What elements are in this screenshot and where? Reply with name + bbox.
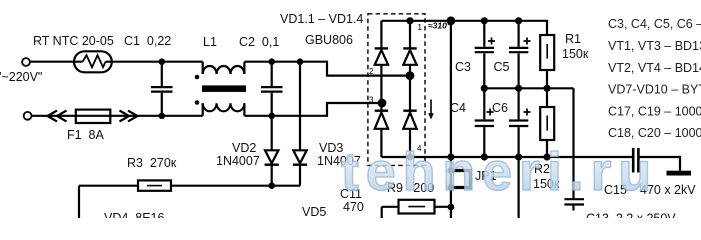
junction lower rail / C4 <box>481 153 488 160</box>
capacitor C6 leads <box>517 88 519 157</box>
capacitor C5 leads <box>517 21 519 89</box>
inductor L1 upper winding arcs <box>203 66 245 74</box>
junction +310V rail / C3 <box>481 17 488 24</box>
bridge right column wire <box>409 21 411 157</box>
junction C1 bottom <box>159 113 166 120</box>
junction lower rail / R2 <box>543 153 550 160</box>
wire R3 to VD2/VD3 node <box>171 185 300 187</box>
diode VD3 cathode bar <box>293 163 307 165</box>
resistor R9 body <box>399 200 435 214</box>
capacitor C4 leads <box>483 88 485 157</box>
svg-text:L1: L1 <box>203 35 217 49</box>
wire mid rail to R2 <box>546 88 548 107</box>
junction lower rail / midpoint wire <box>447 153 454 160</box>
svg-text:VD1.1 – VD1.4: VD1.1 – VD1.4 <box>280 12 363 26</box>
capacitor C6 plates <box>509 121 528 127</box>
wire C15 to chassis <box>640 157 680 171</box>
wire VD2 to R3 node <box>271 165 273 186</box>
diode VD2 triangle <box>265 150 278 163</box>
svg-text:R1: R1 <box>565 32 581 46</box>
resistor R2 body <box>540 107 554 140</box>
svg-text:1: 1 <box>418 23 423 32</box>
junction mid rail / C5 C6 <box>515 85 522 92</box>
capacitor C3 leads <box>483 21 485 89</box>
mid rail (C3/C4 junction net) <box>484 87 573 89</box>
diode VD3 triangle <box>293 150 306 163</box>
resistor R2 inner dash <box>546 116 548 131</box>
wire R2 to lower rail <box>546 140 548 157</box>
svg-text:RT NTC 20-05: RT NTC 20-05 <box>33 34 114 48</box>
chassis ground symbol <box>667 171 692 176</box>
junction C2 top <box>268 58 275 65</box>
half-bridge midpoint wire <box>450 21 452 218</box>
junction C1 top <box>159 58 166 65</box>
junction JP1 top <box>448 167 455 174</box>
svg-text:C2 0,1: C2 0,1 <box>239 35 279 49</box>
wire VD3 to R3 node <box>299 165 301 186</box>
svg-text:C6: C6 <box>492 101 508 115</box>
svg-text:VD5: VD5 <box>302 205 326 218</box>
thermistor RT zigzag element <box>83 55 106 67</box>
wire RT to L1 (upper line) <box>106 61 203 63</box>
svg-text:VD4 8Е16: VD4 8Е16 <box>104 211 165 218</box>
capacitor C13 lower lead <box>572 206 574 211</box>
resistor R1 body <box>540 35 554 70</box>
resistor R3 body <box>138 180 171 190</box>
svg-text:470: 470 <box>343 200 364 214</box>
inductor L1 lower winding lead <box>202 103 204 116</box>
capacitor C2 leads <box>271 62 273 116</box>
diode VD1.2 cathode bar <box>403 47 416 49</box>
capacitor C1 plates <box>151 87 173 92</box>
junction +310V rail / midpoint wire <box>447 16 456 25</box>
capacitor C2 plates <box>261 87 283 92</box>
svg-text:150к: 150к <box>562 47 589 61</box>
junction R9 right <box>448 204 455 211</box>
junction bridge pin 2 <box>406 71 415 80</box>
wire R9 to midpoint wire <box>435 206 451 208</box>
wire left of R3 <box>79 185 138 187</box>
wire R9 left lead down <box>382 207 399 218</box>
resistor R9 inner dash <box>408 206 425 208</box>
current direction arrow head <box>428 113 434 119</box>
fuse F1 8A <box>76 110 111 123</box>
svg-text:VT1, VT3 – BD139: VT1, VT3 – BD139 <box>608 39 701 53</box>
diode VD1.4 cathode bar <box>403 109 416 111</box>
svg-text:C1 0,22: C1 0,22 <box>124 34 171 48</box>
capacitor C4 plates <box>475 121 494 127</box>
diode VD2 cathode bar <box>265 163 279 165</box>
inductor L1 core bar <box>202 85 246 92</box>
svg-text:1N4007: 1N4007 <box>216 154 260 168</box>
polarity plus C6 <box>524 109 531 116</box>
svg-text:tehneri.ru: tehneri.ru <box>341 142 658 202</box>
svg-text:C3, C4, C5, C6 – 1,5: C3, C4, C5, C6 – 1,5 <box>608 17 701 31</box>
junction bridge pin 4 <box>406 153 413 160</box>
svg-text:C4: C4 <box>450 101 466 115</box>
svg-text:C5: C5 <box>494 60 510 74</box>
capacitor C1 leads <box>161 62 163 116</box>
svg-text:C3: C3 <box>455 60 471 74</box>
svg-text:3: 3 <box>369 96 374 105</box>
wire C6 node down to lower circuit <box>517 157 519 218</box>
junction lower rail / C6 <box>515 153 522 160</box>
svg-text:GBU806: GBU806 <box>305 33 353 47</box>
terminal X1 (upper input) <box>22 58 30 66</box>
diode VD1.1 cathode bar <box>375 47 388 49</box>
resistor R3 inner dash <box>147 185 162 187</box>
inductor L1 lower winding arcs <box>203 103 245 111</box>
terminal X2 (lower input) <box>24 112 32 120</box>
junction +310V rail / C5 <box>515 17 522 24</box>
svg-text:"~220V": "~220V" <box>0 70 42 84</box>
diode VD1.3 triangle <box>375 112 388 128</box>
inductor L1 upper winding lead <box>202 62 204 74</box>
junction C2 bottom <box>268 113 275 120</box>
bridge left column wire <box>380 21 382 157</box>
wire R1 to mid rail <box>546 70 548 88</box>
parts list text block <box>608 17 701 140</box>
svg-text:VD3: VD3 <box>319 141 343 155</box>
junction VD2 at R3 wire <box>268 182 275 189</box>
polarity plus C4 <box>487 109 494 116</box>
capacitor C5 plates <box>509 48 528 52</box>
svg-text:C13 2,2 x 250V: C13 2,2 x 250V <box>586 212 676 219</box>
svg-text:VD2: VD2 <box>232 141 256 155</box>
polarity dot L1 upper <box>195 75 200 80</box>
wire lower line to diode VD2 <box>271 116 273 151</box>
polarity plus C3 <box>488 38 495 45</box>
svg-text:≈310ʹ: ≈310ʹ <box>428 21 450 31</box>
junction JP1 bottom <box>448 184 455 191</box>
wire X2 through F1 to L1 (lower line) <box>32 115 203 117</box>
wire R3 down to VD4 <box>78 186 80 218</box>
svg-text:C17, C19 – 1000: C17, C19 – 1000 <box>608 105 701 119</box>
svg-text:C18, C20 – 1000: C18, C20 – 1000 <box>608 126 701 140</box>
capacitor C15 plates <box>633 148 638 173</box>
thermistor RT NTC 20-05 body <box>74 51 112 72</box>
capacitor C3 plates <box>475 48 494 52</box>
diode VD1.2 triangle <box>403 50 416 65</box>
svg-text:R3 270к: R3 270к <box>127 156 177 170</box>
diode VD1.1 triangle <box>375 50 388 65</box>
svg-text:F1 8A: F1 8A <box>67 128 104 142</box>
wire L1 upper output to bridge pin 2 <box>244 62 410 76</box>
wire X1 to RT <box>30 61 83 63</box>
svg-text:VT2, VT4 – BD140: VT2, VT4 – BD140 <box>608 61 701 75</box>
svg-text:2: 2 <box>369 67 374 76</box>
current direction arrow shaft <box>430 100 432 115</box>
polarity dot L1 lower <box>195 100 200 105</box>
+310V rail (bridge pin 1 output) <box>381 21 547 35</box>
wire L1 lower output to bridge pin 3 <box>244 103 382 116</box>
junction bridge pin 3 <box>378 99 387 108</box>
bridge rectifier VD1 dashed outline <box>368 14 425 166</box>
resistor R1 inner dash <box>546 44 548 59</box>
svg-text:VD7-VD10 – BYT28: VD7-VD10 – BYT28 <box>608 83 701 97</box>
connector chevrons left of F1 <box>48 111 67 122</box>
wire upper line to diode VD3 <box>299 62 301 151</box>
polarity plus C5 <box>524 38 531 45</box>
junction bridge pin 1 <box>406 17 413 24</box>
junction mid rail / R1 R2 <box>543 85 550 92</box>
diode VD1.4 triangle <box>403 112 416 128</box>
capacitor C13 plates <box>564 199 584 204</box>
jumper JP1 <box>451 171 470 188</box>
wire mid rail down to C13 <box>572 88 574 198</box>
diode VD1.3 cathode bar <box>375 109 388 111</box>
lower rail (bridge pin 4 net) <box>381 156 632 158</box>
connector chevrons right of F1 <box>120 111 138 122</box>
junction VD3 top <box>297 58 304 65</box>
junction mid rail / C3 C4 <box>481 85 488 92</box>
